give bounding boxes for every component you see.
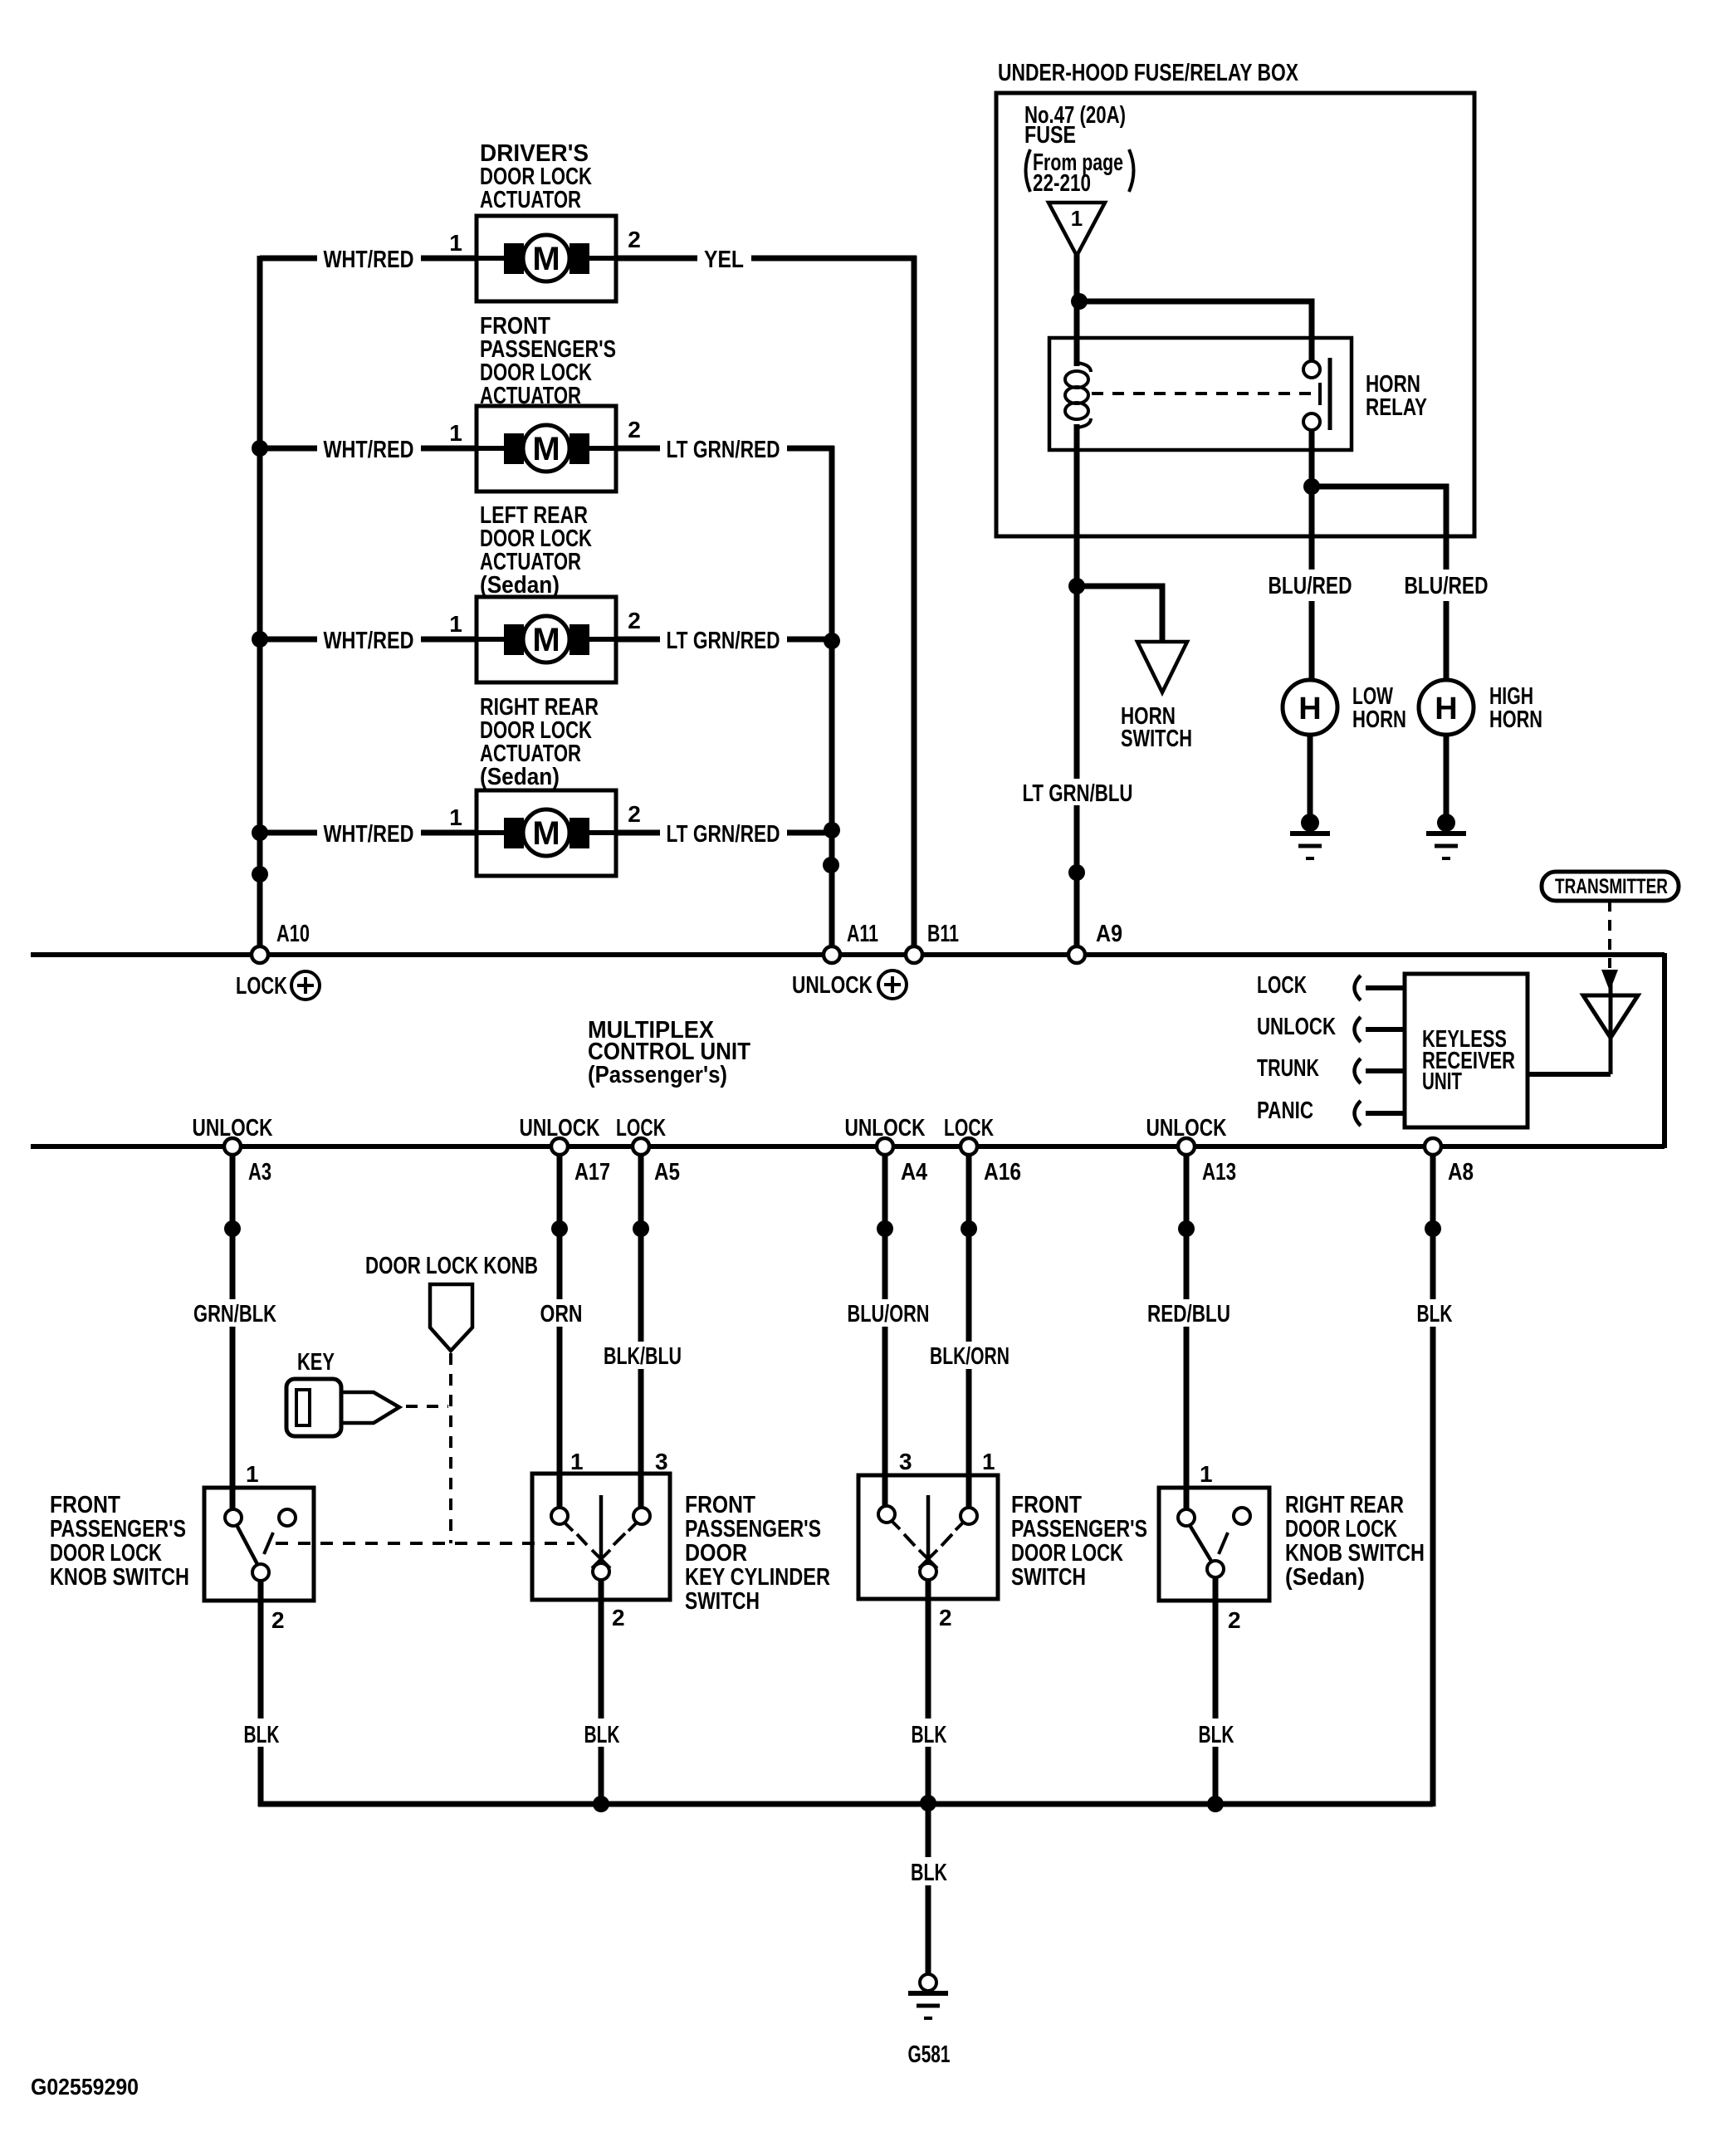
svg-text:2: 2 bbox=[628, 227, 641, 252]
wire BLU/ORN from A4 bbox=[848, 1154, 930, 1508]
svg-text:1: 1 bbox=[570, 1449, 584, 1474]
svg-text:LT GRN/RED: LT GRN/RED bbox=[667, 437, 780, 463]
connector A8 bbox=[1425, 1138, 1441, 1155]
junction dot below A8 bbox=[1425, 1220, 1441, 1237]
wire WHT/RED pin1 row 1 bbox=[260, 247, 478, 273]
svg-text:1: 1 bbox=[449, 420, 462, 446]
svg-text:DOOR: DOOR bbox=[685, 1540, 747, 1567]
svg-text:BLK: BLK bbox=[1199, 1722, 1234, 1748]
dashed wire transmitter to antenna bbox=[1608, 901, 1611, 968]
label (From page 22-210) bbox=[1026, 149, 1134, 197]
junction dot lock bus row 2 bbox=[252, 440, 268, 457]
connector B11 bbox=[906, 946, 922, 963]
svg-text:A9: A9 bbox=[1096, 921, 1122, 947]
low/high horn LOW bbox=[1283, 680, 1337, 814]
antenna symbol bbox=[1528, 984, 1638, 1074]
wire YEL from M1 pin2 down to B11 bbox=[616, 247, 917, 947]
svg-text:TRUNK: TRUNK bbox=[1257, 1055, 1319, 1082]
svg-text:(Sedan): (Sedan) bbox=[480, 572, 560, 599]
contact 2 right rear switch bbox=[1207, 1561, 1224, 1577]
label M3 left rear door lock actuator bbox=[480, 502, 592, 599]
label front passenger door lock knob switch bbox=[50, 1492, 189, 1591]
contact 2 door lock switch bbox=[920, 1563, 936, 1580]
wire ORN from A17 bbox=[540, 1154, 583, 1508]
multiplex control unit right edge bbox=[1662, 953, 1667, 1148]
svg-text:LOCK: LOCK bbox=[1257, 972, 1307, 999]
svg-text:A16: A16 bbox=[984, 1159, 1021, 1186]
connector A3 bbox=[224, 1138, 241, 1155]
svg-text:(Sedan): (Sedan) bbox=[1285, 1564, 1365, 1591]
label horn switch bbox=[1121, 703, 1192, 752]
svg-text:ORN: ORN bbox=[540, 1301, 583, 1327]
label BLU/RED high horn bbox=[1405, 570, 1489, 601]
contact right right rear switch bbox=[1234, 1508, 1250, 1524]
connector A10 bbox=[252, 946, 268, 963]
svg-text:YEL: YEL bbox=[704, 247, 744, 273]
label keyless receiver unit bbox=[1422, 1026, 1515, 1095]
wire LT GRN/RED from M2 pin2 down to A11 bbox=[616, 437, 834, 947]
label multiplex control unit bbox=[588, 1017, 750, 1088]
switch alt dash right rear switch bbox=[1219, 1533, 1228, 1554]
pin labels right rear switch bbox=[1200, 1461, 1241, 1633]
svg-text:BLU/ORN: BLU/ORN bbox=[848, 1301, 930, 1327]
label UNLOCK + bbox=[792, 970, 907, 999]
wire lock bus vertical WHT/RED feed bbox=[257, 256, 263, 948]
ground high horn bbox=[1426, 814, 1466, 858]
svg-text:1: 1 bbox=[449, 611, 462, 637]
wire BLK pin2 door lock switch bbox=[926, 1580, 931, 1806]
svg-text:BLU/RED: BLU/RED bbox=[1405, 573, 1489, 599]
svg-text:KNOB SWITCH: KNOB SWITCH bbox=[1285, 1540, 1425, 1567]
actuation line key cylinder bbox=[592, 1495, 610, 1568]
junction dot lock bus row 3 bbox=[252, 631, 268, 648]
svg-text:KEY: KEY bbox=[297, 1349, 335, 1376]
wire relay lower contact down bbox=[1309, 430, 1315, 682]
svg-text:UNLOCK: UNLOCK bbox=[1257, 1014, 1336, 1040]
svg-text:G02559290: G02559290 bbox=[31, 2074, 139, 2100]
svg-text:UNLOCK: UNLOCK bbox=[520, 1115, 600, 1142]
switch alt dash knob switch bbox=[264, 1533, 273, 1554]
wire fuse to relay coil bbox=[1074, 254, 1080, 366]
svg-text:DOOR LOCK: DOOR LOCK bbox=[1011, 1540, 1123, 1567]
svg-text:SWITCH: SWITCH bbox=[1121, 726, 1192, 752]
junction dot key cylinder at bottom wire bbox=[593, 1796, 609, 1812]
dashed diag left door lock switch bbox=[904, 1534, 915, 1546]
svg-text:2: 2 bbox=[628, 801, 641, 827]
svg-text:BLK: BLK bbox=[1417, 1301, 1453, 1327]
wire BLK/BLU from A5 bbox=[604, 1154, 682, 1508]
wire WHT/RED pin1 row 3 bbox=[260, 628, 478, 654]
svg-text:RIGHT REAR: RIGHT REAR bbox=[1285, 1492, 1404, 1518]
label front passenger door key cylinder switch bbox=[685, 1492, 830, 1615]
label fuse No.47 (20A) bbox=[1024, 102, 1126, 149]
actuator motor M2 front passenger's door lock actuator bbox=[477, 406, 616, 491]
keyless receiver unit box bbox=[1405, 974, 1528, 1127]
contact 1 key cylinder bbox=[551, 1508, 573, 1531]
svg-text:SWITCH: SWITCH bbox=[685, 1588, 760, 1615]
input stub LOCK bbox=[1355, 975, 1405, 1000]
svg-text:2: 2 bbox=[628, 608, 641, 633]
ground G581 bbox=[908, 1974, 948, 2018]
svg-text:1: 1 bbox=[1200, 1461, 1213, 1487]
wire BLK pin2 right rear switch bbox=[1213, 1577, 1219, 1806]
svg-text:LOCK: LOCK bbox=[616, 1115, 666, 1142]
svg-text:GRN/BLK: GRN/BLK bbox=[193, 1301, 276, 1327]
junction dot below A4 bbox=[877, 1220, 893, 1237]
svg-text:A17: A17 bbox=[574, 1159, 610, 1186]
svg-text:UNIT: UNIT bbox=[1422, 1068, 1462, 1095]
label horn relay bbox=[1366, 371, 1427, 421]
svg-text:A10: A10 bbox=[276, 921, 310, 947]
svg-text:KNOB SWITCH: KNOB SWITCH bbox=[50, 1564, 189, 1591]
wire bottom ground bus bbox=[258, 1802, 1433, 1807]
wire branch to high horn bbox=[1312, 486, 1446, 682]
wire RED/BLU from A13 bbox=[1147, 1154, 1230, 1508]
junction dot horn switch branch bbox=[1068, 578, 1085, 594]
arrowhead transmitter signal bbox=[1601, 970, 1618, 991]
ground low horn bbox=[1290, 814, 1330, 858]
svg-text:LT GRN/RED: LT GRN/RED bbox=[667, 628, 780, 654]
contact 1 right rear switch bbox=[1178, 1509, 1195, 1526]
contact right knob switch bbox=[279, 1509, 296, 1526]
svg-text:H: H bbox=[1435, 692, 1457, 726]
svg-text:DOOR LOCK: DOOR LOCK bbox=[50, 1540, 162, 1567]
label low horn bbox=[1352, 683, 1406, 733]
wire A8 corner bbox=[1430, 1802, 1436, 1806]
svg-text:BLU/RED: BLU/RED bbox=[1269, 573, 1352, 599]
svg-text:3: 3 bbox=[899, 1449, 912, 1474]
key symbol bbox=[286, 1379, 399, 1436]
junction dot lock bus lower bbox=[252, 866, 268, 882]
switch arm knob switch bbox=[237, 1525, 258, 1566]
relay dashed actuation line bbox=[1092, 392, 1314, 395]
svg-text:B11: B11 bbox=[927, 921, 959, 947]
switch front passenger door lock knob switch box bbox=[204, 1488, 314, 1601]
relay coil bbox=[1065, 363, 1091, 428]
wire BLK to G581 bbox=[926, 1804, 931, 1976]
svg-text:FUSE: FUSE bbox=[1024, 122, 1076, 149]
door lock knob symbol bbox=[430, 1284, 472, 1351]
svg-text:22-210: 22-210 bbox=[1033, 170, 1091, 197]
connector A16 bbox=[961, 1138, 977, 1155]
wire BLK from A8 bbox=[1417, 1154, 1453, 1804]
switch right rear door lock knob switch box bbox=[1159, 1488, 1269, 1601]
label front passenger door lock switch bbox=[1011, 1492, 1147, 1591]
wire WHT/RED pin1 row 4 bbox=[260, 821, 478, 848]
label high horn bbox=[1489, 683, 1542, 733]
svg-text:2: 2 bbox=[612, 1605, 625, 1630]
junction dot lock bus row 4 bbox=[252, 824, 268, 841]
svg-text:M: M bbox=[532, 241, 560, 277]
svg-text:2: 2 bbox=[1228, 1607, 1241, 1633]
wire BLK/ORN from A16 bbox=[930, 1154, 1009, 1508]
wire fuse branch to relay contact bbox=[1079, 301, 1312, 361]
svg-text:SWITCH: SWITCH bbox=[1011, 1564, 1086, 1591]
label right rear door lock knob switch bbox=[1285, 1492, 1425, 1591]
wire to horn switch bbox=[1077, 586, 1162, 640]
low/high horn HIGH bbox=[1419, 680, 1474, 814]
svg-text:PASSENGER'S: PASSENGER'S bbox=[50, 1516, 186, 1542]
junction dot below A17 bbox=[551, 1220, 568, 1237]
horn switch triangle bbox=[1137, 642, 1187, 692]
svg-text:BLK: BLK bbox=[912, 1722, 947, 1748]
svg-text:PASSENGER'S: PASSENGER'S bbox=[1011, 1516, 1147, 1542]
svg-text:LOCK: LOCK bbox=[944, 1115, 994, 1142]
relay box horn relay bbox=[1049, 338, 1352, 450]
junction dot below A16 bbox=[961, 1220, 977, 1237]
dashed diag right door lock switch bbox=[941, 1534, 952, 1546]
relay contact blade bbox=[1328, 358, 1332, 430]
svg-text:WHT/RED: WHT/RED bbox=[324, 628, 414, 654]
svg-text:2: 2 bbox=[939, 1605, 952, 1630]
svg-text:(Sedan): (Sedan) bbox=[480, 764, 560, 790]
svg-text:UNLOCK: UNLOCK bbox=[193, 1115, 273, 1142]
svg-text:G581: G581 bbox=[908, 2041, 951, 2068]
svg-text:A5: A5 bbox=[654, 1159, 680, 1186]
svg-text:FRONT: FRONT bbox=[50, 1492, 120, 1518]
wire GRN/BLK from A3 bbox=[193, 1154, 276, 1508]
multiplex control unit top bus bbox=[31, 952, 1665, 957]
svg-text:1: 1 bbox=[246, 1461, 259, 1487]
svg-text:BLK: BLK bbox=[584, 1722, 620, 1748]
svg-text:BLK/BLU: BLK/BLU bbox=[604, 1343, 682, 1370]
connector A11 bbox=[824, 946, 840, 963]
svg-text:H: H bbox=[1298, 692, 1321, 726]
svg-text:LOCK: LOCK bbox=[236, 973, 287, 1000]
svg-text:2: 2 bbox=[628, 417, 641, 442]
junction dot M4 wire joins A11 line bbox=[824, 822, 840, 838]
svg-text:1: 1 bbox=[449, 804, 462, 830]
svg-text:M: M bbox=[532, 431, 560, 467]
svg-text:M: M bbox=[532, 622, 560, 658]
pin labels knob switch bbox=[246, 1461, 285, 1633]
wire LT GRN/RED from M4 pin2 bbox=[616, 821, 832, 848]
connector A4 bbox=[877, 1138, 893, 1155]
actuation line door lock switch bbox=[919, 1495, 937, 1568]
contact 1 door lock switch bbox=[956, 1508, 977, 1530]
label M4 right rear door lock actuator bbox=[480, 694, 599, 790]
contact 3 door lock switch bbox=[878, 1506, 900, 1529]
wire LT GRN/RED from M3 pin2 bbox=[616, 628, 832, 654]
label BLU/RED low horn bbox=[1269, 570, 1352, 601]
svg-text:A13: A13 bbox=[1202, 1159, 1236, 1186]
multiplex control unit bottom bus bbox=[31, 1144, 1665, 1149]
contact 3 key cylinder bbox=[628, 1508, 650, 1531]
dashed diag right key cylinder bbox=[614, 1533, 625, 1545]
dashed linkage line switches bbox=[276, 1542, 574, 1545]
junction dot A11 line lower bbox=[823, 857, 839, 873]
svg-text:HORN: HORN bbox=[1352, 706, 1406, 733]
wire BLK pin2 key cylinder bbox=[599, 1580, 604, 1806]
svg-text:RED/BLU: RED/BLU bbox=[1147, 1301, 1230, 1327]
svg-text:WHT/RED: WHT/RED bbox=[324, 247, 414, 273]
svg-text:1: 1 bbox=[449, 230, 462, 256]
svg-text:A8: A8 bbox=[1448, 1159, 1474, 1186]
svg-text:BLK: BLK bbox=[244, 1722, 280, 1748]
actuator motor M1 driver's door lock actuator bbox=[477, 216, 616, 301]
input stub PANIC bbox=[1355, 1101, 1405, 1126]
fuse 1 symbol triangle bbox=[1049, 203, 1105, 256]
junction dot M3 wire joins A11 line bbox=[824, 633, 840, 649]
switch front passenger door key cylinder switch box bbox=[532, 1474, 670, 1600]
svg-text:DOOR LOCK: DOOR LOCK bbox=[1285, 1516, 1397, 1542]
junction dot LT GRN/BLU lower bbox=[1068, 864, 1085, 881]
junction dot horn feed branch bbox=[1303, 478, 1320, 495]
svg-text:LT GRN/BLU: LT GRN/BLU bbox=[1023, 780, 1133, 807]
svg-text:TRANSMITTER: TRANSMITTER bbox=[1555, 875, 1668, 898]
svg-text:HORN: HORN bbox=[1489, 706, 1542, 733]
input stub TRUNK bbox=[1355, 1058, 1405, 1083]
input stub UNLOCK bbox=[1355, 1017, 1405, 1042]
svg-text:KEY CYLINDER: KEY CYLINDER bbox=[685, 1564, 830, 1591]
svg-text:A11: A11 bbox=[847, 921, 878, 947]
svg-text:WHT/RED: WHT/RED bbox=[324, 437, 414, 463]
pin labels key cylinder bbox=[570, 1449, 668, 1630]
label LOCK + bbox=[236, 971, 320, 1000]
switch arm right rear switch bbox=[1190, 1525, 1212, 1562]
switch front passenger door lock switch box bbox=[858, 1475, 998, 1599]
actuator motor M3 left rear door lock actuator bbox=[477, 597, 616, 682]
contact 2 key cylinder bbox=[593, 1563, 609, 1580]
svg-text:UNLOCK: UNLOCK bbox=[792, 972, 873, 999]
relay contact tick bbox=[1318, 383, 1322, 405]
svg-text:UNDER-HOOD FUSE/RELAY BOX: UNDER-HOOD FUSE/RELAY BOX bbox=[998, 60, 1299, 86]
svg-text:RELAY: RELAY bbox=[1366, 394, 1427, 421]
wire relay coil down to horn switch and A9 bbox=[1074, 424, 1080, 779]
connector A5 bbox=[633, 1138, 649, 1155]
contact 2 knob switch bbox=[252, 1564, 269, 1581]
svg-text:PANIC: PANIC bbox=[1257, 1098, 1313, 1124]
pin labels door lock switch bbox=[899, 1449, 995, 1630]
connector A17 bbox=[551, 1138, 568, 1155]
connector A13 bbox=[1178, 1138, 1195, 1155]
svg-text:BLK/ORN: BLK/ORN bbox=[930, 1343, 1009, 1370]
svg-text:1: 1 bbox=[982, 1449, 995, 1474]
svg-text:DOOR LOCK KONB: DOOR LOCK KONB bbox=[365, 1253, 538, 1279]
box under-hood fuse/relay bbox=[996, 93, 1474, 536]
svg-text:M: M bbox=[532, 815, 560, 852]
svg-text:BLK: BLK bbox=[911, 1860, 947, 1886]
relay contact lower bbox=[1303, 413, 1320, 430]
junction dot right rear at bottom wire bbox=[1207, 1796, 1224, 1812]
svg-text:WHT/RED: WHT/RED bbox=[324, 821, 414, 848]
svg-text:ACTUATOR: ACTUATOR bbox=[480, 187, 581, 213]
svg-text:FRONT: FRONT bbox=[685, 1492, 755, 1518]
dashed link key to knob line bbox=[406, 1405, 448, 1408]
junction dot below A13 bbox=[1178, 1220, 1195, 1237]
junction dot below A5 bbox=[633, 1220, 649, 1237]
svg-text:1: 1 bbox=[1071, 206, 1083, 231]
label M2 front passenger's door lock actuator bbox=[480, 313, 616, 409]
wire LT GRN/BLU lower bbox=[1074, 805, 1080, 947]
actuator motor M4 right rear door lock actuator bbox=[477, 790, 616, 876]
transmitter pill bbox=[1542, 872, 1679, 901]
svg-text:A4: A4 bbox=[901, 1159, 927, 1186]
linkage arrow tick at key cylinder bbox=[577, 1534, 587, 1545]
wire WHT/RED pin1 row 2 bbox=[260, 437, 478, 463]
junction dot door lock switch at bottom wire bbox=[920, 1795, 936, 1811]
svg-text:UNLOCK: UNLOCK bbox=[1146, 1115, 1227, 1142]
svg-text:A3: A3 bbox=[248, 1159, 271, 1186]
svg-text:2: 2 bbox=[271, 1607, 285, 1633]
svg-text:PASSENGER'S: PASSENGER'S bbox=[685, 1516, 821, 1542]
svg-text:(Passenger's): (Passenger's) bbox=[588, 1062, 727, 1088]
wire BLK pin2 knob switch bbox=[258, 1581, 264, 1806]
contact 1 knob switch bbox=[225, 1509, 242, 1526]
junction dot below A3 bbox=[224, 1220, 241, 1237]
svg-text:3: 3 bbox=[655, 1449, 668, 1474]
svg-text:LT GRN/RED: LT GRN/RED bbox=[667, 821, 780, 848]
junction dot fuse branch bbox=[1071, 293, 1088, 310]
label M1 driver's door lock actuator bbox=[480, 140, 592, 213]
svg-text:UNLOCK: UNLOCK bbox=[845, 1115, 926, 1142]
dashed link knob down bbox=[449, 1353, 452, 1543]
connector A9 bbox=[1068, 946, 1085, 963]
relay contact upper bbox=[1303, 361, 1320, 378]
svg-text:FRONT: FRONT bbox=[1011, 1492, 1082, 1518]
